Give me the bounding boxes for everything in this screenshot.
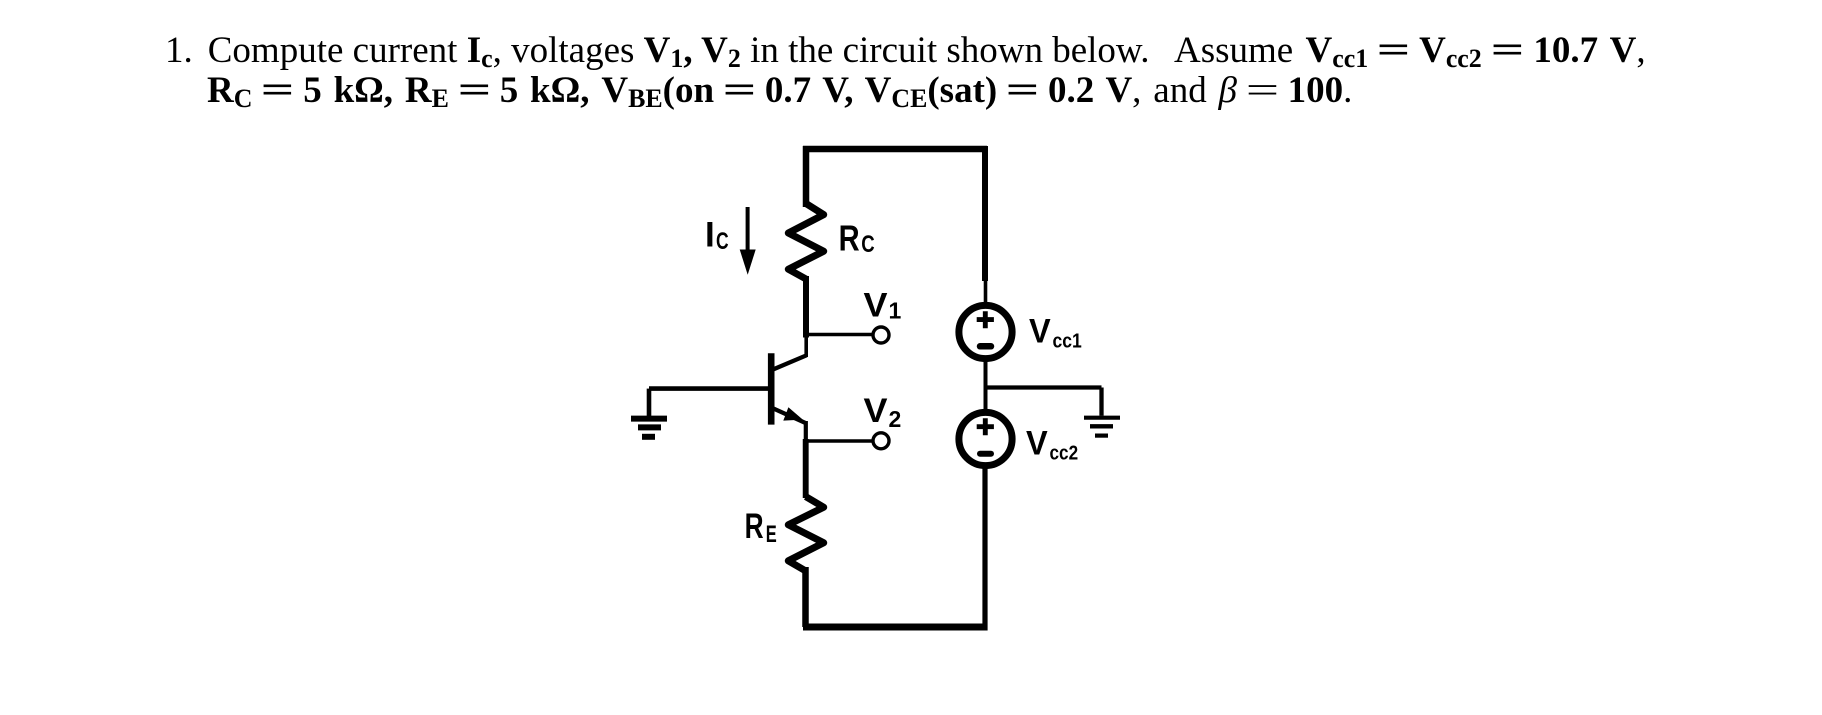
- wire collector mid vertical thick: [803, 276, 809, 338]
- source Vcc1 minus sign: [980, 343, 991, 350]
- node V2 terminal circle: [873, 433, 889, 449]
- problem statement line 1 part b: [1174, 30, 1646, 71]
- current arrow Ic head: [740, 250, 756, 275]
- node V1 terminal circle: [873, 327, 889, 343]
- wire emitter bottom vertical: [802, 567, 809, 627]
- ground left bar3: [642, 434, 655, 440]
- current arrow Ic shaft: [746, 207, 750, 252]
- source Vcc2 plus sign: [977, 418, 994, 435]
- resistor RC: [788, 204, 823, 280]
- transistor Q1 collector diagonal: [773, 355, 807, 369]
- ground right vertical: [1099, 388, 1103, 416]
- wire bottom rail: [803, 624, 987, 631]
- svg-text:1: 1: [889, 297, 902, 323]
- wire collector lead thin: [804, 336, 808, 357]
- svg-text:E: E: [766, 521, 777, 548]
- source Vcc1 lead top: [984, 280, 988, 303]
- source Vcc1 circle: [959, 305, 1012, 358]
- resistor RE: [788, 497, 823, 571]
- ground left bar1: [631, 416, 667, 422]
- svg-text:C: C: [716, 228, 729, 255]
- wire right rail top: [982, 146, 988, 281]
- wire V1 stub: [806, 333, 872, 337]
- svg-text:2: 2: [889, 406, 902, 432]
- svg-text:R: R: [839, 218, 860, 259]
- source Vcc2 lead top: [984, 386, 988, 414]
- svg-text:cc2: cc2: [1050, 442, 1079, 464]
- transistor Q1 emitter arrow head: [783, 407, 803, 420]
- source Vcc1 lead bottom: [984, 358, 988, 390]
- wire emitter mid vertical: [803, 439, 809, 498]
- source Vcc2 minus sign: [980, 451, 991, 457]
- svg-text:V: V: [864, 286, 888, 324]
- source Vcc1 plus sign: [977, 311, 994, 328]
- wire right rail bottom: [982, 466, 987, 631]
- svg-text:C: C: [861, 231, 874, 258]
- svg-text:R: R: [745, 507, 764, 546]
- transistor Q1 base bar: [768, 353, 775, 424]
- svg-text:V: V: [1026, 424, 1048, 462]
- problem statement line 2: [207, 70, 1352, 111]
- ground left bar2: [638, 424, 661, 430]
- wire V2 stub: [805, 439, 872, 443]
- wire collector top vertical: [803, 146, 810, 207]
- wire top rail: [803, 146, 987, 153]
- wire emitter lead thin: [804, 421, 808, 441]
- transistor Q1 emitter diagonal: [773, 408, 806, 423]
- ground left vertical: [647, 389, 652, 416]
- wire junction to right ground: [986, 385, 1102, 389]
- svg-text:V: V: [864, 392, 888, 430]
- ground right bar3: [1095, 434, 1108, 438]
- svg-text:I: I: [705, 215, 715, 254]
- svg-text:cc1: cc1: [1053, 330, 1082, 352]
- svg-text:V: V: [1029, 312, 1051, 350]
- problem statement line 1 part a: [165, 30, 1150, 71]
- ground right bar2: [1090, 424, 1113, 428]
- wire base: [649, 386, 768, 391]
- source Vcc2 circle: [959, 412, 1012, 465]
- ground right bar1: [1084, 416, 1120, 420]
